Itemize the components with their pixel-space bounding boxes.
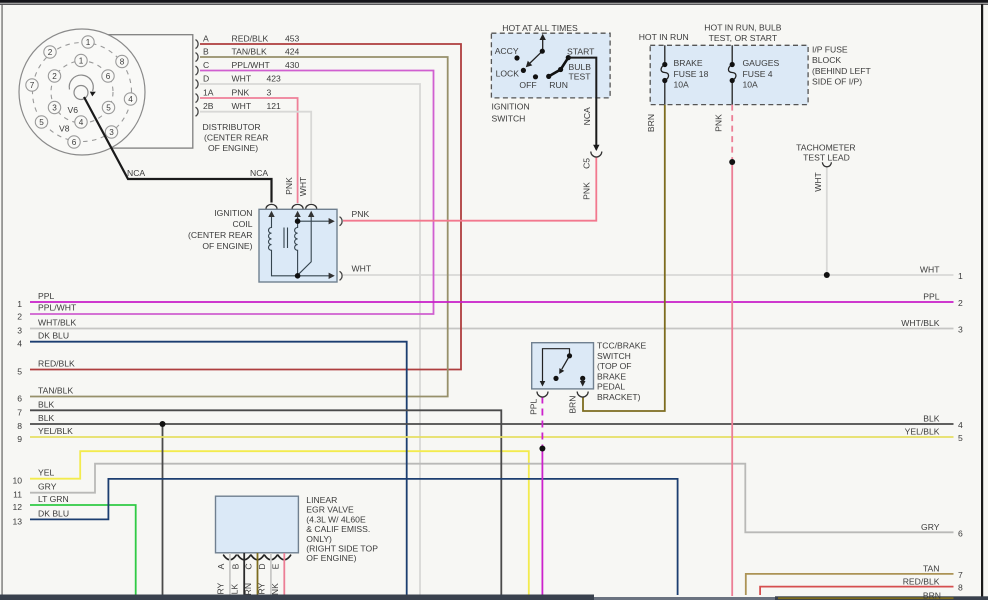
svg-text:PNK: PNK: [232, 88, 250, 98]
svg-text:5: 5: [17, 367, 22, 377]
svg-text:4: 4: [958, 420, 963, 430]
svg-text:WHT: WHT: [920, 265, 940, 275]
svg-text:10A: 10A: [674, 80, 690, 90]
wire NCA rotor to coil: [84, 97, 272, 203]
wire BLK row 7: [30, 410, 501, 595]
connector C5 arc: [591, 152, 602, 158]
svg-text:BLK: BLK: [38, 399, 55, 409]
V8 dashed ring: [33, 43, 132, 142]
svg-text:11: 11: [13, 490, 22, 500]
svg-text:1A: 1A: [203, 88, 214, 98]
svg-text:TEST: TEST: [569, 72, 592, 82]
svg-text:7: 7: [17, 407, 22, 417]
wire RED/BLK bottom right: [760, 587, 953, 595]
svg-text:TEST, OR START: TEST, OR START: [709, 33, 778, 43]
terminal V6-2: [48, 70, 60, 82]
pin arc 2B: [196, 107, 199, 116]
terminal V8-6: [68, 136, 80, 148]
svg-text:PPL/WHT: PPL/WHT: [38, 303, 77, 313]
svg-text:EGR VALVE: EGR VALVE: [306, 505, 354, 515]
svg-text:2: 2: [958, 298, 963, 308]
svg-text:OFF: OFF: [519, 80, 536, 90]
svg-text:7: 7: [958, 570, 963, 580]
svg-text:BRN: BRN: [568, 396, 578, 414]
svg-text:3: 3: [267, 88, 272, 98]
connector C5 arrowhead: [593, 145, 599, 151]
contact dot ACCY: [514, 55, 519, 60]
svg-text:1: 1: [86, 38, 91, 47]
svg-text:BLK: BLK: [38, 413, 55, 423]
svg-text:START: START: [567, 46, 595, 56]
coil arrow pin1: [268, 211, 274, 217]
svg-text:5: 5: [106, 104, 111, 113]
top border bar: [0, 0, 988, 3]
wire WHT tachometer test lead: [826, 166, 828, 275]
svg-text:RED/BLK: RED/BLK: [38, 359, 75, 369]
rotor arrowhead: [90, 92, 96, 97]
svg-text:HOT IN RUN, BULB: HOT IN RUN, BULB: [704, 23, 781, 33]
svg-text:BRN: BRN: [646, 114, 656, 132]
svg-text:DK BLU: DK BLU: [38, 331, 69, 341]
right border: [981, 4, 983, 600]
svg-text:FUSE 18: FUSE 18: [674, 69, 709, 79]
svg-text:BRAKE: BRAKE: [597, 371, 626, 381]
svg-text:10A: 10A: [743, 80, 759, 90]
svg-text:FUSE 4: FUSE 4: [743, 69, 773, 79]
svg-text:GRY: GRY: [921, 522, 940, 532]
svg-text:SIDE OF I/P): SIDE OF I/P): [812, 77, 862, 87]
svg-text:D: D: [203, 74, 209, 84]
junction dot PPL: [539, 446, 545, 452]
svg-text:1: 1: [79, 57, 84, 66]
svg-text:HOT IN RUN: HOT IN RUN: [639, 32, 689, 42]
svg-text:2: 2: [48, 48, 53, 57]
wire WHT from distributor pin D: [200, 84, 420, 595]
TCC pin arc left: [537, 392, 548, 398]
coil output to WHT: [298, 275, 330, 277]
junction dot row8 x162: [160, 421, 166, 427]
TCC fixed contact dot: [567, 353, 572, 358]
svg-text:6: 6: [958, 528, 963, 538]
wire WHT/BLK row 3: [30, 328, 954, 330]
svg-text:(BEHIND LEFT: (BEHIND LEFT: [812, 66, 871, 76]
svg-text:9: 9: [17, 434, 22, 444]
wire TAN/BLK row 6 (to distributor pin B): [30, 57, 448, 397]
TCC switch arm: [562, 356, 570, 369]
svg-text:PPL/WHT: PPL/WHT: [232, 60, 271, 70]
svg-text:HOT AT ALL TIMES: HOT AT ALL TIMES: [502, 23, 578, 33]
svg-text:ONLY): ONLY): [306, 534, 332, 544]
EGR pin connector B: [238, 555, 251, 560]
wire LT GRN row 12: [30, 505, 136, 595]
svg-text:BRAKE: BRAKE: [674, 58, 703, 68]
svg-text:(RIGHT SIDE TOP: (RIGHT SIDE TOP: [306, 544, 378, 554]
svg-text:NCA: NCA: [582, 107, 592, 125]
svg-text:TEST LEAD: TEST LEAD: [803, 153, 850, 163]
wire BRN fuse to TCC switch: [583, 105, 665, 411]
svg-text:4: 4: [79, 118, 84, 127]
wire BLK branch from row 8 junction: [162, 424, 164, 595]
svg-text:RED/BLK: RED/BLK: [903, 576, 940, 586]
svg-text:PPL: PPL: [529, 398, 539, 414]
ignition switch arm: [529, 51, 542, 64]
svg-text:RUN: RUN: [549, 80, 568, 90]
terminal V8-3: [105, 126, 117, 138]
svg-text:YEL/BLK: YEL/BLK: [905, 427, 940, 437]
wire WHT from distributor pin 2B to coil: [200, 112, 311, 203]
coil out arc WHT: [340, 271, 343, 280]
ignition coil box: [259, 209, 337, 282]
wire PPL dashed below TCC switch: [541, 397, 543, 448]
EGR pin connector D: [265, 555, 278, 560]
left border: [2, 4, 3, 596]
wire NCA ignition switch output: [568, 58, 596, 150]
terminal V6-6: [102, 70, 114, 82]
svg-text:PNK: PNK: [352, 209, 370, 219]
contact dot START: [566, 55, 571, 60]
svg-text:C5: C5: [582, 158, 592, 169]
svg-text:WHT: WHT: [232, 101, 252, 111]
svg-text:424: 424: [285, 47, 300, 57]
ignition switch box: [491, 33, 610, 98]
svg-text:2: 2: [17, 312, 22, 322]
terminal V8-1: [82, 36, 94, 48]
coil pin1 entry with primary winding: [269, 216, 297, 276]
coil arrow pin3: [308, 211, 314, 217]
wire GRY EGR pin A: [229, 553, 231, 600]
svg-text:V6: V6: [68, 105, 79, 115]
svg-text:6: 6: [106, 72, 111, 81]
svg-text:BLK: BLK: [923, 414, 940, 424]
svg-text:BRN: BRN: [923, 591, 941, 600]
svg-text:D: D: [257, 563, 267, 569]
coil arrow out PNK: [329, 218, 335, 224]
svg-text:WHT: WHT: [352, 264, 372, 274]
svg-text:8: 8: [120, 58, 125, 67]
wire YEL row 10: [30, 451, 529, 595]
svg-text:423: 423: [267, 74, 282, 84]
tach lead connector arc: [822, 162, 831, 167]
svg-text:LOCK: LOCK: [496, 68, 520, 78]
terminal V8-5: [35, 116, 47, 128]
svg-text:5: 5: [39, 118, 44, 127]
EGR pin connector C: [251, 555, 264, 560]
svg-text:PNK: PNK: [284, 177, 294, 195]
svg-text:121: 121: [267, 101, 282, 111]
svg-text:DISTRIBUTOR: DISTRIBUTOR: [203, 122, 261, 132]
contact dot LOCK: [521, 68, 526, 73]
svg-text:TACHOMETER: TACHOMETER: [796, 143, 856, 153]
svg-text:(CENTER REAR: (CENTER REAR: [188, 230, 252, 240]
svg-text:3: 3: [17, 326, 22, 336]
svg-text:3: 3: [52, 104, 57, 113]
TCC left pin arrow: [540, 381, 546, 387]
coil pin3 entry diagonal: [299, 216, 311, 274]
svg-text:4: 4: [128, 95, 133, 104]
wire BLK EGR pin B: [243, 553, 245, 600]
svg-text:WHT: WHT: [232, 74, 252, 84]
ignition switch feed arrow: [542, 39, 544, 51]
svg-text:COIL: COIL: [232, 219, 252, 229]
TCC moving contact dot: [553, 376, 558, 381]
wire PNK dashed below gauges fuse: [731, 105, 733, 159]
svg-text:DK BLU: DK BLU: [38, 508, 69, 518]
svg-text:WHT: WHT: [813, 171, 823, 191]
svg-text:IGNITION: IGNITION: [214, 208, 252, 218]
contact dot OFF: [533, 74, 538, 79]
pin arc 1A: [196, 94, 199, 103]
svg-text:NCA: NCA: [250, 168, 268, 178]
svg-text:TAN/BLK: TAN/BLK: [232, 47, 267, 57]
wire GRY EGR pin D: [270, 553, 272, 600]
EGR valve box: [216, 496, 299, 553]
EGR pin connector E: [278, 555, 291, 560]
rotor rotation arc: [69, 75, 93, 91]
terminal V8-8: [116, 55, 128, 67]
wire BRN EGR pin C: [257, 553, 259, 600]
svg-text:WHT/BLK: WHT/BLK: [38, 318, 76, 328]
pin arc D: [196, 80, 199, 89]
terminal V8-2: [44, 46, 56, 58]
wire PPL solid below junction: [541, 448, 543, 596]
svg-text:TAN: TAN: [923, 564, 940, 574]
wire BRN bottom right: [778, 597, 954, 599]
gauges fuse 4: [731, 45, 733, 64]
svg-text:ACCY: ACCY: [495, 46, 519, 56]
svg-text:YEL: YEL: [38, 468, 54, 478]
coil arrow pin2: [294, 211, 300, 217]
bottom bar: [0, 595, 594, 600]
svg-text:3: 3: [109, 128, 114, 137]
svg-text:2: 2: [52, 72, 57, 81]
svg-text:13: 13: [12, 516, 22, 526]
svg-text:OF ENGINE): OF ENGINE): [202, 241, 252, 251]
wire RED/BLK row 5 (to distributor pin A): [30, 44, 461, 370]
coil pin arc WHT: [306, 204, 317, 208]
svg-text:B: B: [203, 47, 209, 57]
svg-text:BLOCK: BLOCK: [812, 55, 841, 65]
terminal V6-5: [102, 101, 114, 113]
svg-text:PEDAL: PEDAL: [597, 382, 625, 392]
svg-text:TCC/BRAKE: TCC/BRAKE: [597, 341, 646, 351]
wire PPL row 1: [30, 301, 954, 303]
terminal V6-3: [48, 101, 60, 113]
contact dot RUN: [546, 74, 551, 79]
svg-text:453: 453: [285, 34, 300, 44]
terminal V6-1: [75, 54, 87, 66]
svg-text:5: 5: [958, 433, 963, 443]
svg-text:PNK: PNK: [714, 114, 724, 132]
svg-text:TAN/BLK: TAN/BLK: [38, 386, 73, 396]
svg-text:3: 3: [958, 325, 963, 335]
svg-text:NCA: NCA: [127, 168, 145, 178]
svg-text:BULB: BULB: [569, 62, 592, 72]
coil output to PNK: [298, 220, 330, 222]
TCC switch internal wiring: [543, 349, 570, 382]
wire BLK row 8: [30, 423, 954, 425]
TCC right contact dot: [580, 376, 585, 381]
svg-text:6: 6: [72, 138, 77, 147]
svg-text:PPL: PPL: [923, 292, 939, 302]
svg-text:B: B: [230, 563, 240, 569]
svg-text:(TOP OF: (TOP OF: [597, 361, 632, 371]
TCC brake switch box: [532, 343, 594, 389]
svg-text:PPL: PPL: [38, 291, 54, 301]
svg-text:A: A: [216, 563, 226, 569]
svg-text:C: C: [244, 563, 254, 569]
wire DK BLU row 4: [30, 342, 407, 595]
distributor cap circle: [19, 29, 145, 155]
coil core lines: [284, 228, 288, 249]
coil pin arc NCA: [266, 204, 277, 208]
svg-text:8: 8: [958, 583, 963, 593]
svg-text:GRY: GRY: [38, 482, 57, 492]
distributor connector box: [75, 35, 193, 148]
brake fuse 18: [664, 45, 666, 64]
svg-text:7: 7: [30, 81, 35, 90]
terminal V8-7: [26, 79, 38, 91]
TCC right pin wire and arrow: [582, 378, 584, 382]
svg-text:V8: V8: [59, 124, 70, 134]
svg-text:RED/BLK: RED/BLK: [232, 34, 269, 44]
coil junction dot bottom: [295, 273, 301, 279]
svg-text:1: 1: [17, 299, 22, 309]
terminal V8-4: [124, 93, 136, 105]
run-bulb-start thick link: [549, 58, 569, 77]
coil out arc PNK: [340, 217, 343, 226]
svg-text:430: 430: [285, 60, 300, 70]
svg-text:YEL/BLK: YEL/BLK: [38, 426, 73, 436]
fuse block box: [650, 45, 808, 104]
wire YEL/BLK row 9: [30, 436, 954, 438]
svg-text:I/P FUSE: I/P FUSE: [812, 45, 848, 55]
svg-text:(CENTER REAR: (CENTER REAR: [204, 133, 268, 143]
coil junction dot top: [295, 218, 301, 224]
coil arrow out WHT: [329, 273, 335, 279]
wire PNK from distributor pin 1A to coil: [200, 98, 298, 203]
V6 dashed ring: [51, 61, 113, 123]
svg-text:(4.3L W/ 4L60E: (4.3L W/ 4L60E: [306, 514, 366, 524]
svg-text:LT GRN: LT GRN: [38, 494, 69, 504]
svg-text:LINEAR: LINEAR: [306, 495, 337, 505]
svg-text:BRACKET): BRACKET): [597, 392, 641, 402]
svg-text:SWITCH: SWITCH: [492, 114, 526, 124]
svg-text:PNK: PNK: [582, 182, 592, 200]
coil pin arc PNK: [292, 204, 303, 208]
wire DK BLU row 13: [30, 479, 678, 595]
svg-text:OF ENGINE): OF ENGINE): [208, 143, 258, 153]
svg-text:GAUGES: GAUGES: [743, 58, 780, 68]
svg-text:8: 8: [17, 421, 22, 431]
coil pin2 entry with secondary winding: [295, 216, 298, 276]
terminal V6-4: [75, 116, 87, 128]
pin arc A: [196, 40, 199, 49]
pin arc B: [196, 53, 199, 62]
wire WHT coil output row: [343, 274, 954, 276]
svg-text:& CALIF EMISS.: & CALIF EMISS.: [306, 524, 370, 534]
pin arc C: [196, 66, 199, 75]
svg-text:IGNITION: IGNITION: [492, 102, 530, 112]
TCC pin arc right: [577, 392, 588, 398]
svg-text:SWITCH: SWITCH: [597, 351, 631, 361]
wire PNK EGR pin E: [283, 553, 285, 600]
svg-text:10: 10: [12, 476, 22, 486]
svg-text:2B: 2B: [203, 101, 214, 111]
wire GRY row 11: [30, 464, 954, 533]
rotor center: [74, 86, 88, 100]
svg-text:1: 1: [958, 271, 963, 281]
wire PPL/WHT row 2 (to distributor pin C): [30, 71, 434, 315]
EGR pin connector A: [224, 555, 237, 560]
svg-text:12: 12: [12, 502, 22, 512]
svg-text:C: C: [203, 60, 209, 70]
svg-text:6: 6: [17, 394, 22, 404]
svg-text:WHT/BLK: WHT/BLK: [901, 318, 939, 328]
wire PNK coil to C5 connector: [343, 158, 596, 221]
junction dot WHT/tach: [824, 272, 830, 278]
svg-text:WHT: WHT: [298, 176, 308, 196]
svg-text:A: A: [203, 34, 209, 44]
junction dot PNK: [729, 159, 735, 165]
contact dot BULB TEST: [558, 67, 563, 72]
svg-text:OF ENGINE): OF ENGINE): [306, 553, 356, 563]
svg-text:E: E: [270, 563, 280, 569]
switch pivot dot: [540, 49, 545, 54]
wire PNK solid below junction: [731, 161, 733, 596]
wire TAN bottom right: [746, 574, 954, 595]
svg-text:4: 4: [17, 339, 22, 349]
